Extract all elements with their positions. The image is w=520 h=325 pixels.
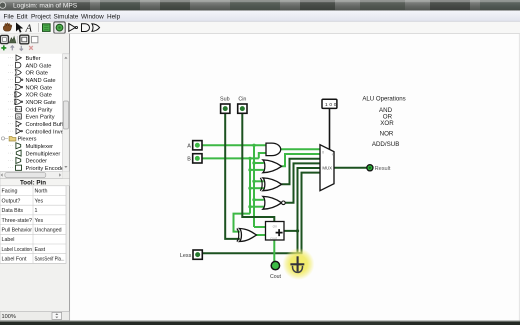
wire Sub to subtract-XOR lower input [225,113,240,239]
wire subtract-XOR output to adder input [256,234,266,236]
input pin Cin [238,104,247,113]
svg-text:ADD/SUB: ADD/SUB [372,141,400,148]
wire A to AND gate [202,144,266,146]
svg-text:Yes: Yes [35,218,44,224]
node A tap OR [252,161,255,164]
NOR gate U4 [263,196,285,209]
svg-text:Three-state?: Three-state? [2,218,33,224]
wire B tap to NOR gate [250,206,264,208]
svg-text:Cout: Cout [270,274,282,280]
svg-text:A: A [187,144,191,150]
wire Cin to adder carry-in [242,113,274,221]
svg-text:Unchanged: Unchanged [35,228,62,234]
svg-text:XOR: XOR [380,120,394,127]
svg-text:Logisim: main of MPS: Logisim: main of MPS [13,3,78,10]
wire select bus from constant to MUX [329,108,331,149]
adder U7 [266,222,285,241]
svg-text:Demultiplexer: Demultiplexer [26,151,61,157]
cursor highlight blob [283,248,315,280]
svg-text:NOR: NOR [380,131,394,138]
wire adder sum to MUX input 4 [284,168,320,231]
cursor crosshair [290,256,304,272]
node B tap OR [248,168,251,171]
wire A to adder input [254,226,266,228]
output pin Result [367,165,391,172]
svg-text:Simulate: Simulate [54,13,79,20]
wire B vertical bus [249,158,251,213]
wire stub below adder sum junction [297,231,299,253]
wire B step into AND lower input [259,153,266,158]
svg-text:A: A [25,24,33,35]
svg-text:SansSerif Pla...: SansSerif Pla... [35,257,65,263]
svg-text:Label: Label [2,237,15,243]
wire A tap to NOR gate [254,199,264,201]
output pin Cout [270,261,282,279]
node adder sum junction [296,229,299,232]
wire A vertical bus [253,145,255,227]
svg-text:Label Font: Label Font [2,257,28,263]
svg-text:Sub: Sub [220,97,230,103]
multiplexer U6 MUX [320,145,335,191]
input pin A [193,141,202,150]
node A tap NOR [252,198,255,201]
svg-text:AND Gate: AND Gate [26,63,52,69]
svg-text:Label Location: Label Location [2,247,33,253]
wire AND output to MUX input 0 [281,148,321,150]
wire B tap to XOR gate [250,187,264,189]
wire Less to MUX input 5 [202,173,320,254]
input pin B [193,154,202,163]
svg-text:Less: Less [180,253,192,259]
wire OR output to MUX input 1 [282,154,321,166]
svg-text:Result: Result [375,166,391,172]
svg-text:Controlled Buffe: Controlled Buffe [26,122,67,128]
svg-text:Pull Behavior: Pull Behavior [2,228,33,234]
wire A tap to XOR gate [254,180,264,182]
svg-text:Data Bits: Data Bits [2,208,24,214]
svg-text:East: East [35,247,46,253]
svg-text:cin: cin [273,224,277,228]
svg-text:Controlled Inver: Controlled Inver [26,129,66,135]
wire B tap to OR gate [250,169,264,171]
XOR gate U5 (B inverter for subtract) [237,229,257,242]
OR gate U2 [263,160,282,173]
input pin Sub [221,104,230,113]
node B tap NOR [248,205,251,208]
svg-text:Buffer: Buffer [26,56,41,62]
svg-text:Even Parity: Even Parity [26,115,55,121]
wire MUX output to Result pin [334,167,367,169]
svg-text:1: 1 [35,208,38,214]
svg-text:Output?: Output? [2,198,21,204]
wire adder carry-out to Cout pin [273,240,275,261]
node B bus junction [248,157,251,160]
svg-text:Project: Project [31,13,51,20]
svg-text:Multiplexer: Multiplexer [26,144,54,150]
svg-text:XNOR Gate: XNOR Gate [26,100,56,106]
svg-text:File: File [4,13,15,20]
svg-text:2k: 2k [17,115,21,119]
svg-text:Yes: Yes [35,198,44,204]
wire B to AND step [202,157,259,159]
svg-text:Cin: Cin [238,97,246,103]
node B tap XOR [248,187,251,190]
svg-text:100: 100 [325,102,338,108]
svg-text:ALU Operations: ALU Operations [362,96,405,103]
wire A tap to OR gate [254,162,264,164]
svg-text:XOR Gate: XOR Gate [26,93,52,99]
svg-text:MUX: MUX [322,166,332,171]
svg-text:Odd Parity: Odd Parity [26,107,53,113]
wire XOR output to MUX input 2 [282,159,321,185]
input pin Less [193,250,202,259]
wire B to subtract-XOR upper input [234,214,251,232]
svg-text:0: 0 [322,151,324,155]
XOR gate U3 [260,178,281,191]
svg-text:100%: 100% [2,314,16,320]
svg-text:cout: cout [270,236,276,240]
svg-text:OR Gate: OR Gate [26,71,48,77]
svg-text:Priority Encoder: Priority Encoder [26,166,67,172]
svg-text:Plexers: Plexers [18,137,37,143]
wire NOR output to MUX input 3 [285,163,320,202]
constant select pins "1 0 0" [322,99,338,108]
svg-text:Window: Window [81,13,104,20]
svg-text:Decoder: Decoder [26,159,48,165]
svg-text:Facing: Facing [2,189,18,195]
svg-text:+: + [332,152,335,157]
svg-text:North: North [35,189,48,195]
node A tap XOR [252,180,255,183]
svg-text:Help: Help [107,13,121,20]
svg-text:NAND Gate: NAND Gate [26,78,56,84]
svg-text:Edit: Edit [17,13,28,20]
node A bus junction [252,144,255,147]
svg-text:B: B [187,157,191,163]
svg-text:NOR Gate: NOR Gate [26,85,53,91]
AND gate U1 [266,143,281,156]
svg-text:2k+1: 2k+1 [15,108,23,112]
